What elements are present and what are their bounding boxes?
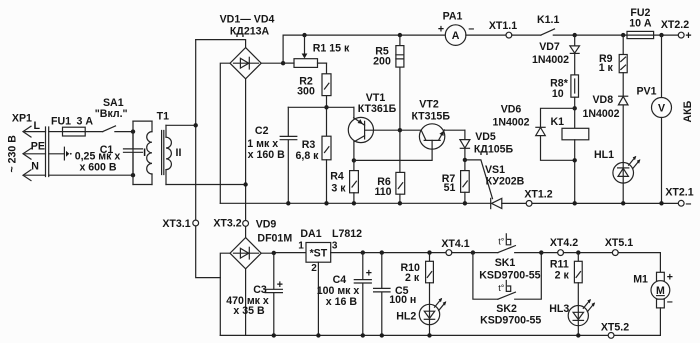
node VD6/K1 top (573, 106, 577, 110)
svg-text:t°: t° (498, 283, 505, 293)
svg-text:–: – (667, 296, 673, 308)
wire bridge left corner to bottom bus (220, 63, 230, 203)
wire riser to XT3.1 (196, 40, 221, 278)
wire N from XP1 to C1 bottom node (49, 174, 133, 176)
svg-text:х 35 В: х 35 В (233, 305, 265, 317)
svg-text:V: V (658, 102, 665, 114)
svg-text:3: 3 (332, 240, 338, 251)
resistor R2 300 (297, 63, 331, 136)
svg-text:XT5.2: XT5.2 (601, 322, 629, 334)
resistor R10 2k (400, 250, 433, 303)
svg-text:DF01M: DF01M (257, 233, 292, 245)
wire VT1 base line to VT2 collector (400, 129, 421, 131)
svg-text:L7812: L7812 (332, 228, 362, 240)
svg-text:HL1: HL1 (594, 149, 614, 161)
wire bus to FU2 (575, 34, 627, 36)
node K1.1 out (573, 33, 577, 37)
svg-text:t°: t° (498, 237, 505, 247)
resistor R3 6.8k (296, 136, 331, 203)
svg-text:М: М (656, 285, 665, 297)
svg-text:R1 15 к: R1 15 к (313, 43, 350, 55)
svg-text:XT4.1: XT4.1 (441, 238, 469, 250)
node VT1 collector (352, 158, 356, 162)
svg-text:VD8: VD8 (592, 94, 613, 106)
svg-text:II: II (176, 147, 182, 159)
svg-text:L: L (34, 120, 41, 132)
capacitor C3 470uF 35V (226, 253, 283, 336)
terminal XT5.1 (612, 250, 618, 256)
wire node to C2 and VT1 emitter (288, 106, 354, 108)
wire FU2 to XT2.2 (654, 34, 679, 36)
svg-text:+: + (277, 279, 283, 291)
terminal XT1.2 (526, 201, 532, 207)
wire PA1 to XT1.1 (466, 34, 506, 36)
svg-text:1 мк х: 1 мк х (247, 138, 278, 150)
svg-text:110: 110 (374, 186, 391, 198)
svg-text:PV1: PV1 (636, 86, 656, 98)
svg-text:HL3: HL3 (549, 303, 569, 315)
transistor VT2 KT315B (411, 98, 464, 149)
svg-text:K1: K1 (551, 116, 565, 128)
thermal switch SK1 KSD9700-55 (479, 234, 541, 282)
node R2/R3/C2/VT1e (324, 105, 328, 109)
wire L from XP1 to fuse (49, 131, 63, 133)
svg-text:200: 200 (373, 55, 391, 67)
switch SA1 "Вкл." (95, 97, 133, 132)
transistor VT1 KT361B (348, 92, 400, 161)
terminal XT1.1 (506, 32, 512, 38)
diode VD8 1N4002 (582, 94, 628, 163)
wire VT2 emitter to VD5 (464, 130, 466, 139)
svg-text:XP1: XP1 (12, 113, 32, 125)
svg-text:2: 2 (311, 263, 317, 274)
svg-text:HL2: HL2 (396, 310, 416, 322)
svg-text:+: + (366, 268, 372, 280)
svg-text:VD6: VD6 (501, 103, 522, 115)
resistor R6 110 (374, 172, 404, 203)
resistor R7 51 (442, 160, 469, 203)
LED HL1 (594, 149, 640, 204)
svg-text:АКБ: АКБ (682, 100, 694, 122)
relay contact K1.1 (512, 14, 575, 35)
regulator DA1 L7812 (298, 228, 362, 335)
wire fuse to switch (85, 131, 103, 133)
svg-text:1N4002: 1N4002 (532, 54, 569, 66)
svg-text:I: I (143, 147, 146, 159)
svg-text:R4: R4 (330, 171, 344, 183)
wire top bus (283, 34, 445, 36)
bridge rectifier VD1-VD4 (220, 13, 275, 78)
svg-text:~ 230 В: ~ 230 В (7, 135, 19, 173)
wire bottom bus left (220, 202, 490, 204)
svg-text:1: 1 (298, 240, 304, 251)
svg-text:10: 10 (552, 88, 564, 100)
svg-text:T1: T1 (157, 111, 169, 123)
svg-text:VD7: VD7 (539, 41, 560, 53)
svg-text:VD5: VD5 (475, 131, 496, 143)
svg-text:3 А: 3 А (77, 116, 94, 128)
wire XT4.1 to SK1 (452, 252, 498, 254)
svg-text:XT1.1: XT1.1 (489, 20, 517, 32)
diode VD7 1N4002 (532, 35, 580, 66)
wire bottom bus right (532, 202, 678, 204)
svg-text:M1: M1 (633, 273, 648, 285)
terminal XT3.2 (243, 221, 249, 227)
svg-text:+: + (438, 24, 444, 36)
svg-text:PE: PE (31, 140, 45, 152)
node VT1 base / R5-R6 (398, 128, 402, 132)
svg-text:КД213А: КД213А (230, 26, 270, 38)
svg-text:*ST: *ST (310, 248, 328, 260)
svg-text:КУ202В: КУ202В (486, 176, 525, 188)
svg-text:SK1: SK1 (495, 257, 516, 269)
svg-text:–: – (468, 23, 474, 35)
diode VD6 1N4002 (492, 103, 574, 160)
svg-text:КД105Б: КД105Б (474, 144, 514, 156)
LED HL3 (549, 299, 595, 335)
terminal XT4.2 (558, 250, 564, 256)
svg-text:2 к: 2 к (405, 272, 420, 284)
svg-text:XT3.2: XT3.2 (213, 218, 241, 230)
svg-text:VS1: VS1 (485, 164, 505, 176)
svg-text:51: 51 (444, 182, 456, 194)
wire XT5.1 to motor (618, 253, 660, 273)
svg-text:XT1.2: XT1.2 (524, 189, 552, 201)
resistor R11 2k (550, 253, 582, 306)
relay coil K1 (551, 108, 589, 203)
svg-text:+: + (667, 272, 673, 284)
svg-text:–: – (686, 198, 692, 210)
svg-text:100 н: 100 н (389, 294, 416, 306)
svg-text:XT3.1: XT3.1 (162, 218, 190, 230)
node: junction N/C1 (131, 173, 135, 177)
svg-text:C2: C2 (255, 125, 269, 137)
connector XP1 (12, 113, 49, 181)
svg-text:10 А: 10 А (629, 18, 652, 30)
svg-text:PA1: PA1 (443, 10, 463, 22)
svg-text:1 к: 1 к (599, 62, 614, 74)
svg-text:+: + (685, 30, 691, 42)
svg-text:"Вкл.": "Вкл." (95, 108, 128, 120)
svg-text:R3: R3 (302, 139, 316, 151)
wire XT4.2 to XT5.1 (564, 252, 613, 254)
wire VS1 to XT1.2 (502, 202, 526, 204)
wire SK1 to XT4.2 (541, 252, 557, 254)
svg-text:K1.1: K1.1 (537, 14, 559, 26)
svg-text:300: 300 (297, 86, 315, 98)
svg-text:DA1: DA1 (300, 228, 321, 240)
fuse FU2 10A (627, 7, 654, 38)
capacitor C2 1uF 160V (247, 107, 297, 203)
resistor R9 1k (599, 33, 627, 96)
LED HL2 (396, 298, 446, 336)
svg-text:КТ315Б: КТ315Б (411, 111, 450, 123)
node: junction L/C1 (131, 129, 135, 133)
svg-text:VT2: VT2 (419, 98, 439, 110)
svg-text:FU1: FU1 (51, 116, 71, 128)
svg-text:КТ361Б: КТ361Б (358, 103, 397, 115)
wire PE stub (49, 147, 72, 160)
svg-text:A: A (452, 30, 460, 42)
bridge rectifier VD9 DF01M (230, 219, 292, 269)
svg-text:XT5.1: XT5.1 (605, 237, 633, 249)
svg-text:XT2.1: XT2.1 (665, 187, 693, 199)
node K1 bottom (573, 158, 577, 162)
svg-text:N: N (31, 161, 39, 173)
svg-text:VD1— VD4: VD1— VD4 (220, 13, 275, 25)
svg-text:SK2: SK2 (496, 303, 517, 315)
svg-text:VD9: VD9 (256, 219, 277, 231)
capacitor C5 100n (374, 250, 417, 335)
svg-text:1N4002: 1N4002 (582, 108, 619, 120)
svg-text:х 16 В: х 16 В (326, 296, 358, 308)
svg-text:1N4002: 1N4002 (492, 116, 529, 128)
resistor R4 3k (330, 160, 358, 203)
svg-text:3 к: 3 к (331, 183, 346, 195)
wire VT1 collector to VT2 base (354, 149, 432, 160)
wire top feed to bridge (196, 40, 246, 48)
terminal XT2.2 + (678, 32, 684, 38)
resistor R8* 10 (550, 53, 578, 108)
wire bridge bottom to XT3.2 and VD9 (245, 79, 247, 238)
node secondary top (194, 123, 198, 127)
svg-text:XT4.2: XT4.2 (550, 237, 578, 249)
voltmeter PV1 (636, 35, 671, 203)
terminal XT3.1 (193, 220, 199, 226)
wire VD9 right to DA1 (261, 252, 306, 255)
wire DA1 out rail (331, 252, 446, 254)
diode VD5 KD105B (460, 131, 514, 160)
svg-text:KSD9700-55: KSD9700-55 (480, 315, 541, 327)
node VD5/R7/gate (463, 158, 467, 162)
capacitor C1 0.25uF 600V (75, 132, 143, 176)
capacitor C4 100uF 16V (317, 250, 372, 335)
resistor R5 200 (373, 33, 404, 173)
node secondary bottom (243, 182, 247, 186)
ammeter PA1 (438, 10, 474, 45)
terminal XT5.2 (608, 333, 614, 339)
terminal XT2.1 - (678, 200, 684, 206)
motor M1 (633, 272, 673, 336)
terminal XT4.1 (446, 250, 452, 256)
potentiometer R1 15k (283, 33, 350, 68)
svg-text:х 160 В: х 160 В (248, 149, 285, 161)
svg-text:6,8 к: 6,8 к (296, 150, 320, 162)
wire VD9 bottom to lower rail (245, 269, 247, 336)
wire lower rail (220, 334, 660, 336)
svg-text:KSD9700-55: KSD9700-55 (479, 270, 540, 282)
wire bridge + output riser (261, 35, 283, 63)
fuse FU1 (51, 116, 93, 136)
transformer T1 (133, 111, 246, 185)
svg-text:х 600 В: х 600 В (79, 162, 116, 174)
wire VD9 left to lower rail (220, 253, 230, 335)
thermal switch SK2 KSD9700-55 (473, 253, 542, 327)
svg-text:2 к: 2 к (555, 270, 570, 282)
thyristor VS1 KU202V (465, 160, 525, 209)
